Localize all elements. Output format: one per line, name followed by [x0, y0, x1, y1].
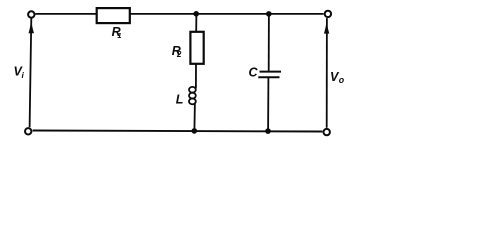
node top junction R2 branch [193, 11, 199, 17]
node bottom junction C branch [265, 128, 271, 134]
svg-text:i: i [22, 70, 25, 80]
arrow up (input polarity) [29, 20, 35, 33]
wire top rail [36, 13, 324, 15]
node top junction C branch [266, 11, 272, 17]
resistor R1 [97, 8, 130, 23]
svg-text:1: 1 [117, 31, 121, 40]
terminal top-right [325, 11, 331, 17]
capacitor C plate bottom [258, 76, 279, 78]
wire top to R2 [195, 14, 197, 31]
resistor R2 [190, 32, 203, 64]
terminal bottom-left [25, 128, 31, 134]
wire L to bottom [193, 103, 196, 131]
wire right rail [326, 18, 328, 128]
arrow up (output polarity) [324, 22, 329, 34]
inductor L [189, 87, 196, 104]
terminal bottom-right [324, 129, 330, 135]
svg-text:L: L [176, 92, 184, 106]
wire bottom rail [33, 131, 323, 132]
wire left rail [30, 18, 32, 127]
capacitor C plate top [260, 71, 282, 73]
wire R2 to L [195, 64, 197, 88]
node bottom junction L branch [192, 128, 198, 134]
svg-text:C: C [249, 66, 259, 80]
wire top to C [268, 14, 270, 71]
wire C to bottom [267, 78, 269, 131]
svg-text:o: o [339, 75, 345, 85]
svg-text:2: 2 [176, 50, 182, 59]
terminal top-left [28, 11, 34, 17]
